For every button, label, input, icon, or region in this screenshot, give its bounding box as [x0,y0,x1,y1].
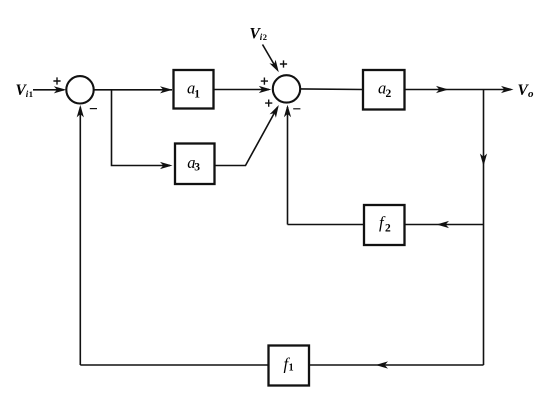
wire: f2 feedback vertical into S2 [284,105,291,225]
svg-text:1: 1 [289,363,294,374]
summing junction S1 [66,76,93,103]
block f1 [269,346,310,386]
wire: a2 output to V_o with mid arrowhead [405,86,514,93]
summing junction S2 [273,75,300,102]
wire: branch down to a3 [112,90,173,169]
wire: a3 output diagonal to S2 [215,105,279,166]
wire: branch into f2 from right [405,221,484,228]
wire: S1 output to block a1 [94,86,173,93]
plus sign at S2 lower-left input [265,100,272,107]
wire: a1 output to S2 [214,86,272,93]
wire: V_i1 input line [33,86,66,93]
minus sign at S1 bottom input [90,108,97,110]
svg-text:2: 2 [263,32,267,42]
svg-text:1: 1 [29,89,33,99]
wire: V_i2 diagonal input to S2 [263,45,279,73]
block f2 [364,205,405,245]
plus sign at S2 top input [280,60,287,67]
svg-text:1: 1 [194,88,200,100]
plus sign at S2 left input [261,78,268,85]
svg-text:o: o [528,88,534,100]
block a1 [174,70,214,109]
svg-text:2: 2 [385,222,391,234]
wire: left vertical feedback up into S1 [77,105,84,365]
plus sign at S1 left input [53,77,60,84]
wire: bottom feedback line through f1 [80,361,483,368]
svg-text:3: 3 [194,162,200,174]
minus sign at S2 bottom input [293,108,300,110]
wire: S2 output to a2 [300,88,363,91]
block a3 [175,144,215,185]
block a2 [363,70,405,110]
svg-text:2: 2 [386,88,392,100]
node: output branch, right vertical wire down [480,90,487,366]
wire: f2 output left to vertical riser [288,224,365,226]
